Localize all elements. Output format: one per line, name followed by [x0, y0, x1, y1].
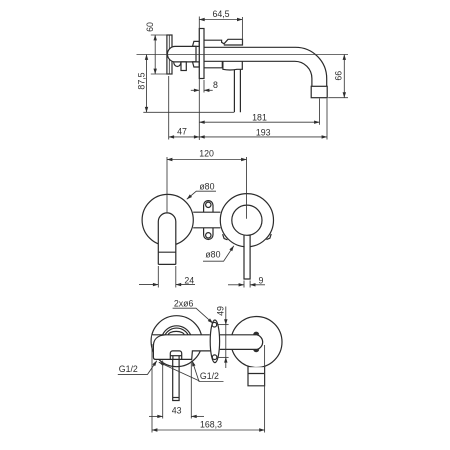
svg-text:181: 181: [252, 112, 267, 122]
G1/2 right leader to step: [192, 361, 223, 382]
hinge dome under capsule: [174, 62, 181, 67]
svg-text:9: 9: [258, 276, 263, 286]
svg-text:60: 60: [145, 22, 155, 32]
dim 87,5 line: [146, 55, 148, 113]
svg-text:ø80: ø80: [199, 182, 214, 192]
svg-text:193: 193: [256, 128, 271, 138]
dim 168,3 line: [152, 429, 265, 431]
dim 49 arrows: [225, 307, 227, 325]
top ear screw hole: [206, 202, 211, 207]
dim 43 extensions: [162, 361, 164, 419]
right inner hub circle: [232, 205, 262, 235]
dim 8 arrow left: [191, 89, 200, 91]
svg-text:43: 43: [172, 406, 182, 416]
svg-text:64,5: 64,5: [212, 9, 229, 19]
bracket hole bottom (o6): [212, 355, 217, 360]
mixer body bar fill: [152, 335, 263, 360]
spout outer contour: [204, 47, 327, 86]
G1/2 left leader: [118, 361, 157, 375]
wall bracket oval: [210, 320, 219, 363]
dim 8 arrow right: [204, 89, 213, 91]
G1/2 right leader to left port: [159, 362, 200, 381]
o80 top leader: [187, 191, 216, 199]
union nut upper half: [193, 41, 200, 46]
lever grip band: [158, 251, 176, 253]
bracket top ear: [204, 201, 213, 213]
shower outlet elbow below right circle: [249, 367, 265, 385]
svg-text:49: 49: [215, 306, 225, 316]
right circle lower-right lug: [266, 234, 271, 240]
dim 168,3 extensions: [151, 344, 153, 433]
dim 24 extensions: [157, 266, 159, 288]
dim 120 center line left: [166, 157, 168, 213]
pipe cap line: [173, 397, 179, 399]
spout tube below right circle: [245, 236, 250, 278]
dim 120 center line right: [246, 157, 248, 219]
bracket bottom ear: [204, 228, 213, 240]
spout inner contour: [204, 61, 312, 86]
lever handle front view: [158, 213, 176, 265]
dim 47 extension: [168, 76, 170, 140]
bottom outlet boss: [170, 351, 181, 359]
dim 60 ref top: [151, 34, 167, 36]
outlet pipe below body: [173, 360, 179, 401]
lower mounting bracket: [204, 61, 222, 67]
dim 49 line: [225, 325, 227, 358]
mixer body bar: [152, 335, 263, 360]
svg-text:8: 8: [213, 80, 218, 90]
2xo6 leader: [173, 308, 213, 323]
lever handle (side view, pointing down): [234, 70, 240, 113]
aerator end piece: [311, 86, 327, 97]
dim 181 extension: [319, 99, 321, 125]
small block under capsule: [181, 62, 186, 71]
right circle lower-left lug: [223, 234, 228, 240]
wall flange (8 mm plate): [199, 29, 204, 79]
dim 43 arrows: [149, 415, 163, 417]
cartridge housing capsule: [167, 46, 196, 62]
upper mounting bracket: [204, 39, 243, 45]
dim 193 extension: [326, 99, 328, 140]
dim 49 ticks: [217, 324, 228, 326]
dim 9 arrows: [228, 284, 244, 286]
lever bottom edge: [158, 263, 176, 265]
o80 bottom leader: [203, 246, 234, 261]
dim 64,5 extension: [241, 17, 243, 45]
center line (side view axis): [137, 54, 349, 56]
dim 64,5 line: [199, 19, 242, 21]
concealed-body mounting plate (side): [167, 35, 172, 74]
boss inner line: [170, 355, 181, 357]
body screw bump top: [253, 332, 259, 335]
bracket hole top (o6): [212, 322, 217, 327]
wall extension line: [198, 17, 200, 141]
dim 60 ref bottom: [151, 73, 167, 75]
union nut lower half: [193, 62, 200, 67]
dim 24 arrows: [139, 284, 158, 286]
left escutcheon circle (lower view): [151, 316, 202, 367]
bottom ear screw hole: [206, 233, 211, 238]
svg-text:168,3: 168,3: [200, 420, 222, 430]
svg-text:66: 66: [333, 71, 343, 81]
boss inner walls: [172, 356, 174, 360]
cartridge ring inner arc: [165, 328, 188, 335]
dim 66 line: [343, 55, 345, 98]
elbow divider line: [248, 373, 265, 375]
svg-text:ø80: ø80: [205, 250, 220, 260]
dim 120 line: [167, 159, 247, 161]
svg-text:120: 120: [199, 149, 214, 159]
dim 66 ref bottom: [328, 97, 348, 99]
dim 47 line: [169, 136, 200, 138]
body screw bump bottom: [253, 349, 259, 352]
svg-text:47: 47: [177, 127, 187, 137]
right escutcheon circle (lower view): [231, 317, 282, 368]
dim 8 extension: [203, 80, 205, 93]
right escutcheon circle o80: [220, 194, 273, 247]
dim 60 line: [154, 35, 156, 74]
svg-text:2xø6: 2xø6: [174, 298, 194, 308]
cartridge ring outer arc: [163, 326, 191, 335]
svg-text:87,5: 87,5: [137, 72, 147, 89]
svg-text:G1/2: G1/2: [119, 364, 138, 374]
svg-text:G1/2: G1/2: [200, 371, 219, 381]
dim 193 line: [199, 136, 327, 138]
dim 87,5 ref bottom / lever tip line: [143, 111, 234, 113]
cartridge stem dome: [168, 331, 184, 334]
dim 181 line: [199, 121, 319, 123]
dim 9 extensions: [243, 281, 245, 288]
connecting bracket body: [193, 212, 220, 228]
left escutcheon circle o80: [142, 194, 193, 245]
svg-text:24: 24: [184, 276, 194, 286]
